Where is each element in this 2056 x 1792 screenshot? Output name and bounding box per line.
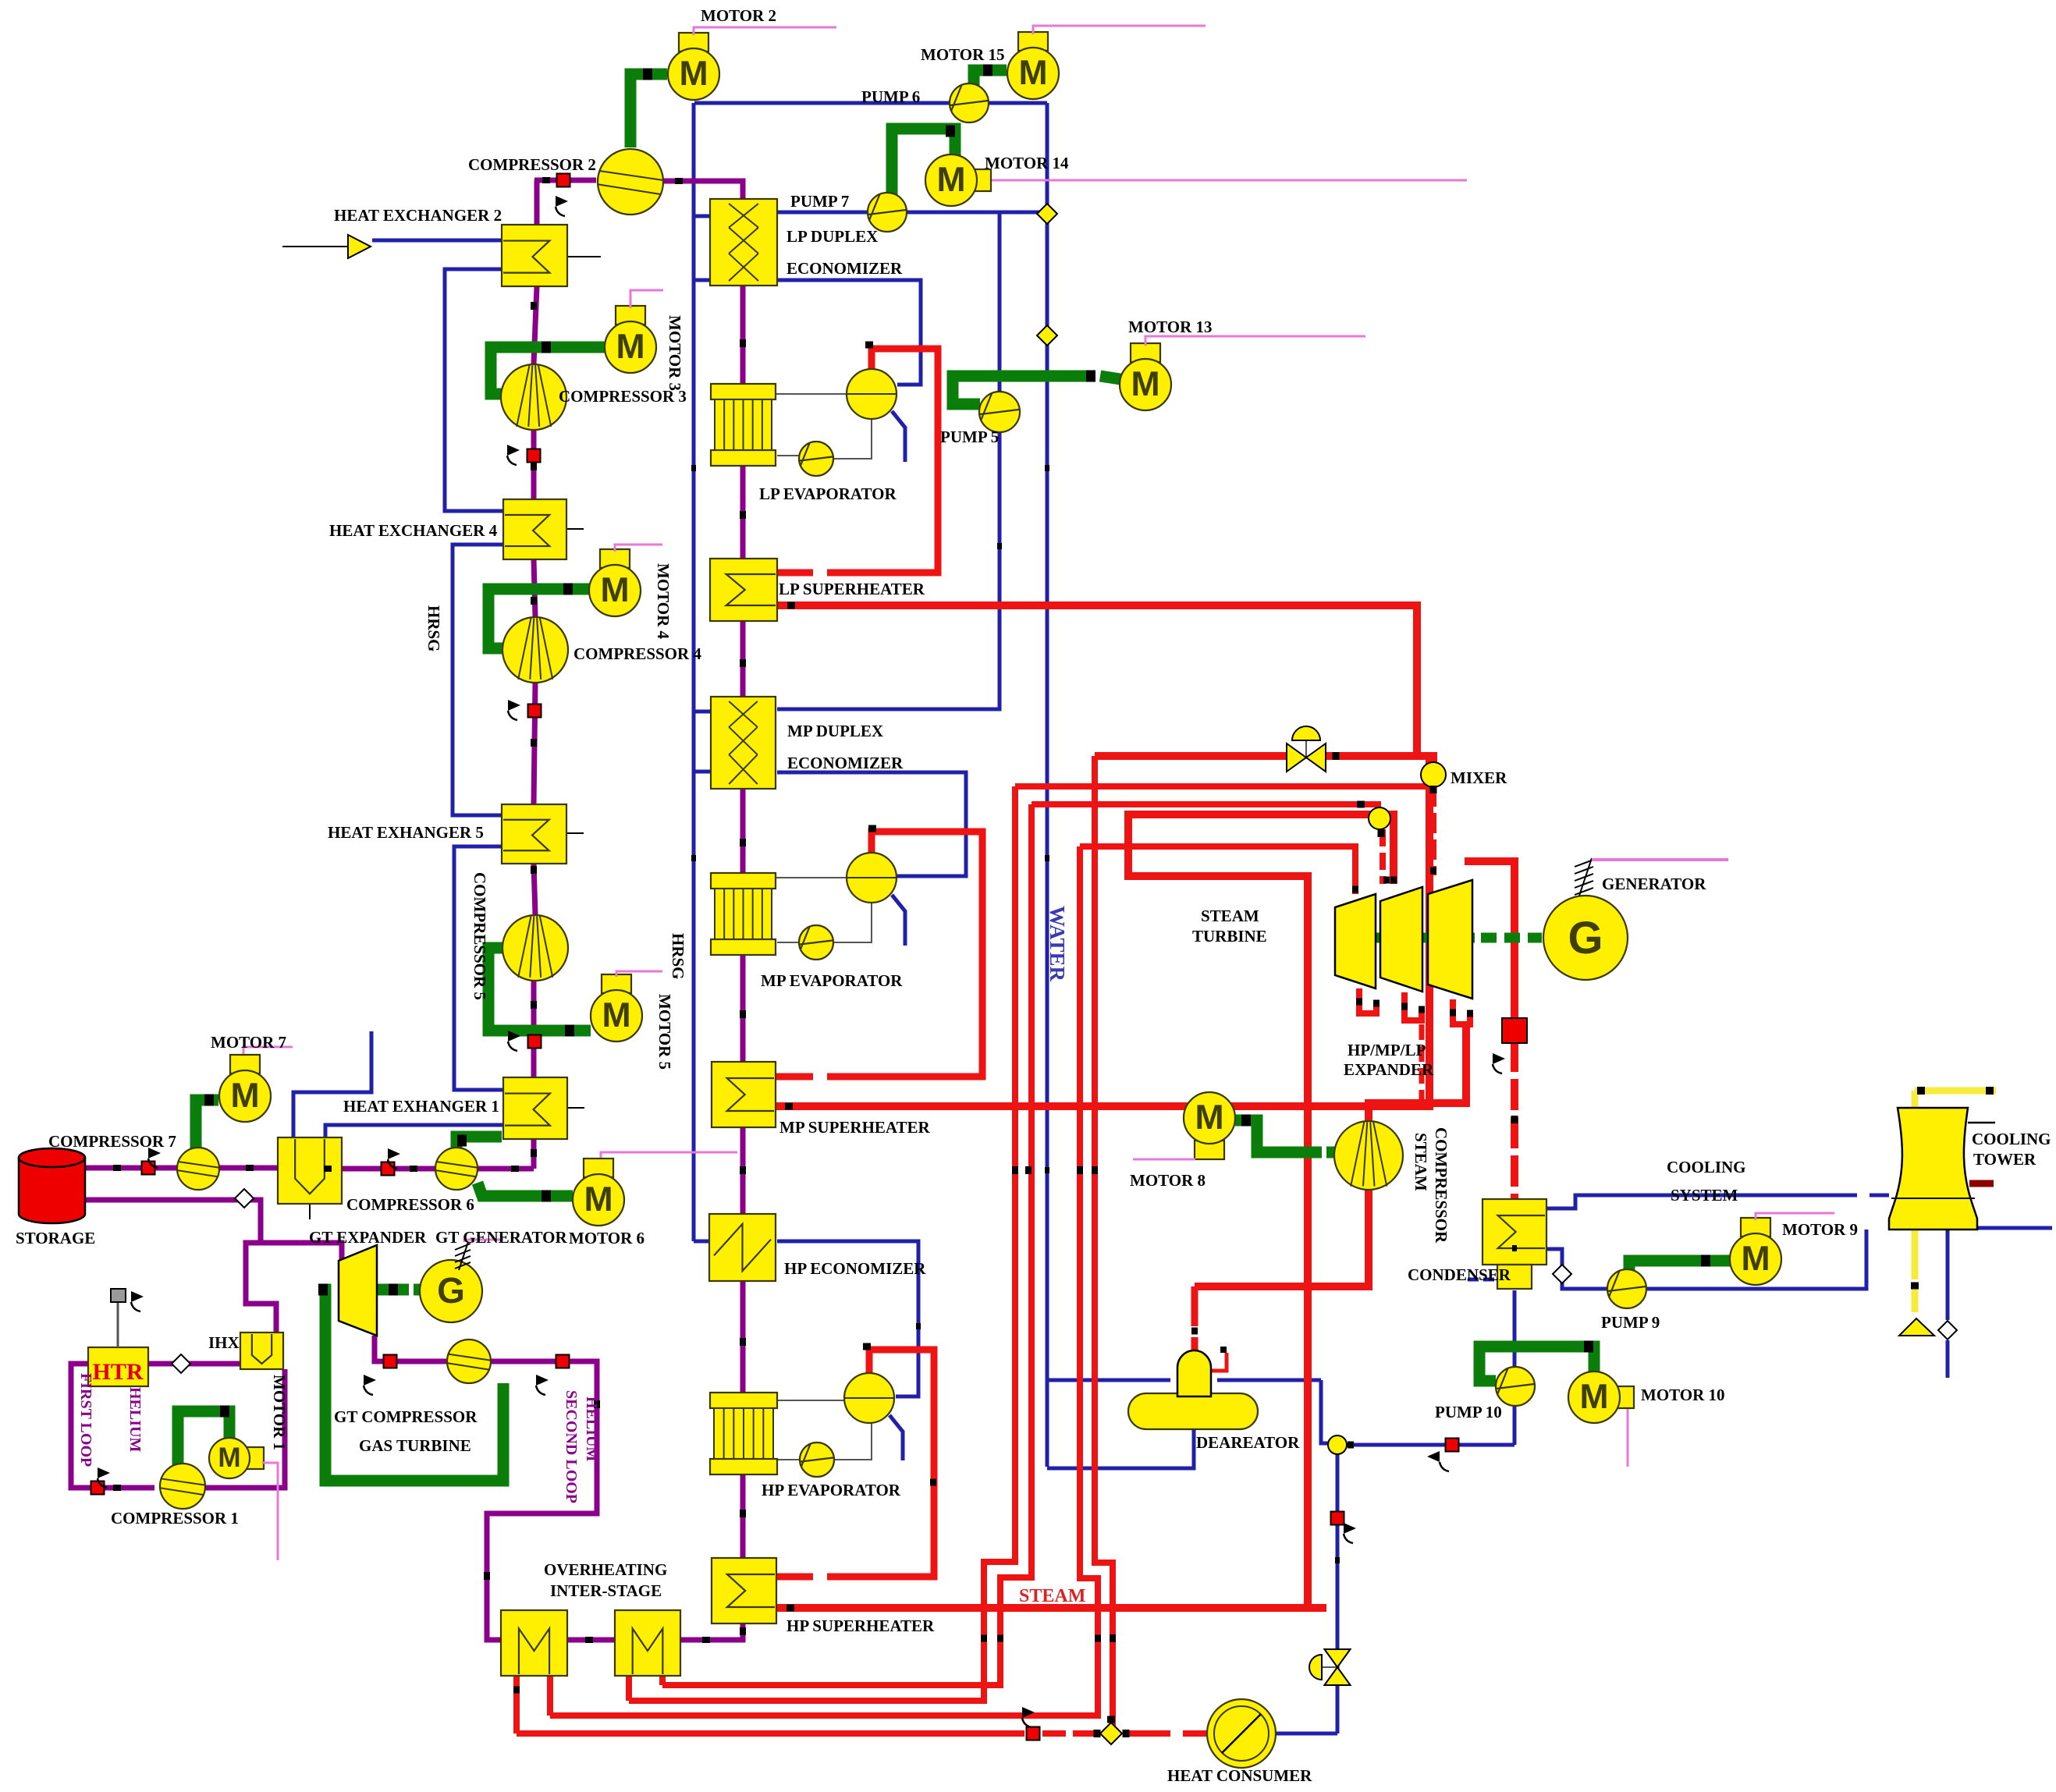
signal wire M9	[1756, 1213, 1834, 1220]
wire steam label crossing tie	[1308, 1604, 1326, 1612]
wire water main vertical	[1046, 103, 1049, 1467]
mixer main	[1421, 762, 1446, 787]
svg-text:GENERATOR: GENERATOR	[1602, 875, 1706, 893]
shaft turbine-generator	[1339, 933, 1475, 943]
wire cooling tower drain yellow	[1912, 1230, 1919, 1279]
svg-text:MOTOR 10: MOTOR 10	[1641, 1386, 1725, 1404]
shaft motor2-compressor2	[630, 74, 667, 147]
wire hp steam to mp turbine inlet	[1128, 814, 1394, 884]
evaporator MP block	[711, 873, 776, 955]
wire mp economizer left stub lower	[694, 770, 712, 774]
generator main	[1543, 896, 1628, 980]
svg-text:GT EXPANDER: GT EXPANDER	[309, 1228, 427, 1247]
node diamond storage line	[235, 1189, 254, 1208]
condenser hotwell	[1497, 1265, 1532, 1289]
svg-text:M: M	[602, 996, 630, 1034]
svg-text:LP SUPERHEATER: LP SUPERHEATER	[779, 580, 925, 598]
pump P7	[868, 193, 907, 232]
motor M1	[209, 1438, 264, 1478]
wire he2 to he4 chain	[445, 269, 503, 511]
wire interstage steam riser D	[662, 804, 1032, 1685]
generator GT	[420, 1260, 482, 1322]
svg-text:MIXER: MIXER	[1451, 768, 1507, 787]
economizer LP duplex	[710, 199, 777, 286]
wire hrsg string mp econ to mp evap	[740, 789, 746, 873]
drain flag htr relief	[131, 1291, 144, 1311]
svg-text:HELIUM: HELIUM	[583, 1396, 600, 1461]
wire hrsg string hp evap to hp superheater	[740, 1467, 746, 1558]
wire node to pump10 line	[1347, 1443, 1514, 1447]
turbine HP section	[1335, 894, 1376, 988]
wire turbine exhaust to condenser	[1465, 861, 1514, 1022]
svg-text:COMPRESSOR 4: COMPRESSOR 4	[573, 644, 701, 663]
cooling tower basin line	[1891, 1198, 1975, 1199]
valve compressor3 discharge	[527, 449, 541, 463]
mixer secondary	[1369, 807, 1390, 829]
svg-text:PUMP 10: PUMP 10	[1435, 1403, 1502, 1421]
wire mixer to lp turbine inlet	[1430, 786, 1436, 875]
valve pump10 suction	[1446, 1439, 1459, 1452]
wire mixer2 to mp turbine inlet	[1380, 829, 1386, 884]
svg-text:STEAM: STEAM	[1201, 907, 1259, 925]
node diamond water upper	[1037, 204, 1057, 224]
wire interstage to second loop riser	[487, 1361, 597, 1640]
motor M13	[1120, 343, 1171, 410]
wire mp evaporator downcomer gray	[777, 942, 799, 943]
wire interstage steam riser B	[550, 846, 1098, 1716]
wire hrsg string lp evap to lp superheater	[740, 466, 746, 559]
wire hp drum to hp superheater inlet	[827, 1350, 934, 1577]
wire lp evaporator downcomer gray	[777, 455, 799, 456]
shaft compressor6-he1 link	[456, 1137, 502, 1150]
wire lp section extraction hook	[1453, 999, 1470, 1024]
svg-text:COMPRESSOR 6: COMPRESSOR 6	[346, 1195, 474, 1214]
evaporator LP block	[711, 384, 776, 466]
wire interstage steam header A	[1015, 783, 1431, 790]
svg-text:HELIUM: HELIUM	[126, 1387, 144, 1452]
signal wire M2	[694, 27, 836, 35]
wire mp drum level stub	[892, 895, 905, 946]
shaft motor1-compressor1	[178, 1411, 229, 1465]
heat exchanger HE1	[503, 1077, 567, 1139]
wire control valve to mixer	[1324, 756, 1433, 763]
svg-text:PUMP 5: PUMP 5	[940, 428, 999, 446]
economizer HP	[709, 1214, 776, 1281]
drain flag c7	[148, 1148, 161, 1168]
svg-text:HP EVAPORATOR: HP EVAPORATOR	[762, 1481, 901, 1499]
compressor C4	[502, 617, 568, 683]
svg-text:FIRST LOOP: FIRST LOOP	[77, 1373, 94, 1467]
svg-text:HRSG: HRSG	[424, 605, 443, 652]
wire compressor3 to he2 string	[534, 286, 537, 364]
signal wire M15	[1033, 26, 1206, 34]
wire he2 right stub	[567, 256, 601, 257]
generator excitation	[1575, 858, 1593, 896]
wire deaerator vent stub	[1211, 1353, 1227, 1371]
pump P10	[1496, 1367, 1535, 1406]
node diamond tower	[1938, 1321, 1957, 1340]
wire hx3 to he1 lower	[325, 1125, 503, 1137]
drain flag c4	[508, 700, 520, 720]
svg-text:MOTOR 4: MOTOR 4	[654, 563, 673, 640]
wire lp economizer left stub upper	[694, 215, 711, 218]
superheater MP	[712, 1062, 776, 1127]
wire compressor2 suction	[534, 178, 596, 183]
wire hx3 vent stub	[293, 1031, 371, 1137]
svg-text:COMPRESSOR 5: COMPRESSOR 5	[471, 872, 489, 1000]
svg-text:CONDENSER: CONDENSER	[1408, 1265, 1511, 1284]
motor M3	[605, 306, 656, 373]
svg-text:HEAT CONSUMER: HEAT CONSUMER	[1167, 1766, 1312, 1785]
svg-text:HP SUPERHEATER: HP SUPERHEATER	[787, 1616, 935, 1635]
node diamond condensate	[1553, 1265, 1571, 1283]
svg-text:LP DUPLEX: LP DUPLEX	[787, 227, 878, 246]
valve deaerator drain	[1331, 1512, 1344, 1525]
wire he4 to he5 chain	[453, 545, 503, 815]
svg-text:COMPRESSOR 2: COMPRESSOR 2	[468, 155, 596, 174]
wire he1 right stub	[567, 1107, 584, 1109]
wire lp economizer left stub lower	[694, 279, 711, 282]
shaft motor4-compressor4	[488, 589, 589, 648]
svg-text:HEAT EXCHANGER 4: HEAT EXCHANGER 4	[329, 521, 498, 540]
svg-text:COMPRESSOR 7: COMPRESSOR 7	[48, 1132, 176, 1151]
evaporator HP block	[710, 1393, 777, 1474]
wire mp section extraction hook	[1404, 992, 1422, 1020]
pump P9	[1607, 1269, 1646, 1308]
compressor C2	[598, 149, 663, 215]
wire mp economizer left stub upper	[694, 710, 712, 714]
svg-text:TURBINE: TURBINE	[1192, 927, 1267, 946]
wire interstage steam header C	[1080, 846, 1355, 894]
svg-text:MOTOR 2: MOTOR 2	[701, 6, 776, 25]
motor M8	[1184, 1092, 1235, 1159]
drain flag c1	[98, 1467, 110, 1488]
cooling tower	[1889, 1108, 1977, 1230]
pump HP recirc	[800, 1442, 834, 1477]
motor M14	[925, 154, 991, 206]
wire ihx to gt expander	[246, 1243, 342, 1332]
svg-text:M: M	[1579, 1378, 1608, 1416]
superheater LP	[710, 559, 777, 621]
motor M6	[573, 1159, 624, 1226]
signal wire M7	[243, 1047, 293, 1054]
signal wire M10	[1627, 1409, 1629, 1467]
signal wire M1	[262, 1463, 278, 1560]
overheating inter-stage HX B	[615, 1610, 680, 1676]
wire he5 to he1 chain	[454, 846, 503, 1090]
svg-text:GT COMPRESSOR: GT COMPRESSOR	[334, 1407, 478, 1426]
wire cooling tower heat out dark red	[1969, 1180, 1994, 1187]
svg-text:MOTOR 1: MOTOR 1	[270, 1375, 289, 1450]
svg-text:MOTOR 7: MOTOR 7	[211, 1033, 286, 1052]
turbine MP section	[1380, 887, 1422, 992]
wire mp economizer upper right riser	[777, 212, 1000, 709]
svg-text:LP EVAPORATOR: LP EVAPORATOR	[759, 484, 897, 503]
svg-text:INTER-STAGE: INTER-STAGE	[550, 1581, 662, 1600]
wire lp superheater outlet steam	[777, 605, 1417, 756]
shaft pump5-motor13	[953, 376, 1095, 404]
node diamond htr line	[172, 1354, 190, 1373]
wire hrsg string mp evap to mp superheater	[740, 955, 746, 1062]
svg-text:ECONOMIZER: ECONOMIZER	[787, 754, 904, 772]
wire condenser to cooling tower supply	[1546, 1195, 1857, 1208]
valve compressor2 suction	[557, 174, 570, 187]
shaft gt expander to gt compressor loop	[318, 1290, 503, 1481]
svg-text:COMPRESSOR: COMPRESSOR	[1432, 1127, 1451, 1244]
svg-text:MOTOR 9: MOTOR 9	[1782, 1220, 1858, 1239]
svg-text:M: M	[218, 1442, 240, 1473]
drum LP	[847, 369, 897, 419]
svg-text:M: M	[1018, 54, 1047, 92]
motor M15	[1007, 32, 1059, 99]
wire interstage steam header B to mixer2	[1032, 801, 1358, 807]
heat exchanger IHX	[240, 1332, 283, 1369]
wire heat consumer valve riser	[1095, 756, 1113, 1733]
shaft motor6-compressor6	[478, 1183, 573, 1196]
wire condenser drain stub	[1468, 1278, 1497, 1282]
wire hrsg string hp eco to hp evaporator	[740, 1281, 746, 1393]
wire mp drum to mp superheater inlet	[827, 832, 982, 1077]
wire compressor7 to hx3	[219, 1166, 278, 1171]
wire he4 right stub	[566, 528, 584, 530]
shaft motor3-compressor3	[491, 347, 605, 394]
shaft steam compressor dash	[1326, 1147, 1336, 1159]
svg-text:OVERHEATING: OVERHEATING	[544, 1560, 667, 1579]
wire helium first loop compressor1 to ihx	[205, 1369, 285, 1488]
htr relief valve box	[111, 1289, 126, 1302]
wire he4 to compressor3 string	[531, 430, 537, 499]
signal wire M13	[1145, 336, 1365, 346]
wire hrsg gas string lp econ to lp evap	[740, 286, 746, 384]
wire hp evaporator downcomer gray	[777, 1459, 800, 1460]
svg-text:G: G	[1568, 913, 1603, 963]
wire interstage2 left outlet	[626, 1676, 632, 1701]
wire interstage steam riser C	[629, 786, 1015, 1701]
svg-text:M: M	[584, 1180, 613, 1219]
shaft pump9-motor9	[1629, 1261, 1731, 1272]
wire cooling tower blowdown	[1946, 1230, 1950, 1320]
wire interstage2 right outlet	[659, 1676, 666, 1685]
svg-text:PUMP 9: PUMP 9	[1601, 1313, 1660, 1332]
overheating inter-stage HX A	[501, 1610, 567, 1676]
svg-text:GT GENERATOR: GT GENERATOR	[435, 1228, 567, 1247]
drain flag p10	[1427, 1451, 1449, 1471]
drain flag gtc	[364, 1375, 376, 1395]
compressor steam compressor	[1334, 1121, 1403, 1190]
wire hrsg feed header vertical	[692, 103, 696, 1241]
motor M7	[219, 1055, 271, 1122]
svg-text:PUMP 7: PUMP 7	[790, 192, 849, 211]
svg-text:TOWER: TOWER	[1973, 1150, 2036, 1169]
svg-text:STEAM: STEAM	[1019, 1586, 1085, 1606]
svg-text:MOTOR 3: MOTOR 3	[666, 315, 684, 391]
svg-text:HEAT EXHANGER 1: HEAT EXHANGER 1	[343, 1097, 499, 1116]
wire compressor5 to he5 string	[534, 864, 535, 915]
wire lp drum to lp superheater inlet	[827, 349, 938, 573]
wire interstage connection middle	[567, 1638, 615, 1643]
signal wire M6	[601, 1152, 737, 1158]
svg-text:IHX: IHX	[208, 1333, 240, 1352]
compressor C3	[501, 364, 566, 430]
wire condenser to pump9	[1546, 1249, 1607, 1289]
svg-text:COOLING: COOLING	[1667, 1158, 1746, 1176]
pipe tick marks	[113, 177, 1518, 1694]
wire extraction to steam compressor	[1369, 1024, 1466, 1122]
drain flag texh	[1493, 1053, 1505, 1073]
wire cooling tower air out	[1912, 1091, 1919, 1108]
cooling tower drain triangle	[1899, 1318, 1934, 1336]
wire he2 feed stub upper	[372, 239, 502, 243]
shaft gt expander to generator	[377, 1284, 409, 1296]
valve compressor4 discharge	[528, 704, 542, 718]
wire compressor4 to he4 string	[534, 559, 535, 617]
drain flag hc	[1022, 1707, 1035, 1727]
wire hp economizer right to hp drum	[777, 1241, 918, 1396]
wire hp drum level stub	[890, 1415, 903, 1460]
wire mp evaporator riser gray	[776, 877, 847, 878]
svg-text:SECOND LOOP: SECOND LOOP	[563, 1390, 580, 1503]
svg-text:COOLING: COOLING	[1972, 1130, 2051, 1148]
svg-text:M: M	[1195, 1098, 1223, 1137]
svg-text:MOTOR 15: MOTOR 15	[921, 45, 1005, 64]
svg-text:MP EVAPORATOR: MP EVAPORATOR	[761, 971, 903, 990]
wire hx3 to compressor6	[342, 1166, 435, 1172]
drain flag c5	[508, 1031, 520, 1051]
svg-text:HEAT EXHANGER 5: HEAT EXHANGER 5	[328, 823, 484, 842]
wire steam compressor to deaerator	[1195, 1189, 1369, 1286]
shaft motor8-steam compressor	[1235, 1120, 1322, 1152]
wire hp superheater outlet riser	[777, 876, 1308, 1608]
svg-text:COMPRESSOR 1: COMPRESSOR 1	[111, 1509, 239, 1528]
drain flag c6	[388, 1148, 400, 1169]
shaft pump7-motor14	[892, 129, 955, 195]
svg-text:MOTOR 8: MOTOR 8	[1130, 1171, 1206, 1190]
valve heat consumer supply	[1027, 1727, 1040, 1741]
drain flag dea	[1344, 1523, 1356, 1543]
wire hx3 bottom stub	[309, 1204, 311, 1219]
wire mp economizer lower right to mp drum	[777, 772, 966, 876]
svg-text:MOTOR 5: MOTOR 5	[655, 994, 674, 1070]
pump MP recirc	[799, 925, 833, 960]
wire hrsg string lp sh to mp economizer	[740, 621, 746, 697]
wire interstage1 right outlet	[547, 1676, 553, 1716]
wire he5 to compressor4 string	[534, 683, 535, 804]
wire cooling tower right outfall	[1977, 1226, 2052, 1230]
wire lp evaporator riser gray	[776, 393, 847, 395]
pump P6	[950, 83, 989, 122]
valve turbine exhaust	[1502, 1018, 1527, 1043]
signal wire M4	[615, 545, 662, 552]
svg-text:MP DUPLEX: MP DUPLEX	[787, 722, 883, 740]
svg-text:HTR: HTR	[92, 1359, 143, 1385]
shaft motor7-compressor7	[196, 1100, 218, 1150]
valve compressor7 suction	[142, 1162, 155, 1175]
gt generator pink stub	[464, 1240, 503, 1242]
flare symbol	[348, 235, 371, 258]
svg-text:HP ECONOMIZER: HP ECONOMIZER	[784, 1259, 926, 1278]
compressor C1	[160, 1464, 205, 1509]
turbine GT expander	[339, 1245, 377, 1336]
svg-text:SYSTEM: SYSTEM	[1671, 1186, 1738, 1205]
wire diamond to heat consumer	[1124, 1730, 1170, 1737]
wire node down to heat consumer valve	[1336, 1454, 1340, 1733]
shaft pump10-motor10	[1479, 1347, 1594, 1381]
wire hrsg string mp sh to hp economizer	[740, 1127, 746, 1214]
wire mp extraction to steam compressor dashed	[1419, 1024, 1425, 1100]
wire he5 right stub	[566, 832, 584, 834]
node diamond water lower	[1037, 325, 1057, 346]
svg-text:WATER: WATER	[1046, 906, 1069, 982]
reactor HTR	[88, 1347, 148, 1386]
wire lp economizer to pump7	[777, 211, 867, 215]
drain flag c3	[507, 445, 520, 465]
wire lp drum level stub	[892, 411, 905, 462]
wire hp section extraction hook	[1359, 988, 1376, 1013]
motor M4	[589, 549, 641, 616]
valve compressor1 suction	[91, 1482, 105, 1495]
svg-text:STORAGE: STORAGE	[16, 1229, 95, 1247]
shaft motor13 link	[1100, 376, 1120, 379]
turbine LP section	[1428, 880, 1472, 999]
svg-text:MP SUPERHEATER: MP SUPERHEATER	[779, 1118, 931, 1137]
gt generator excitation	[455, 1242, 471, 1270]
valve compressor5 discharge	[528, 1035, 542, 1049]
pump LP recirc	[799, 442, 833, 476]
wire hp economizer left stub	[694, 1240, 710, 1244]
pump P5	[979, 392, 1020, 432]
drain flag c2	[556, 196, 568, 216]
compressor C6	[435, 1148, 478, 1190]
svg-text:HRSG: HRSG	[669, 933, 687, 980]
wire storage lower connection	[85, 1200, 261, 1243]
heat exchanger HE4	[503, 499, 566, 559]
svg-text:DEAREATOR: DEAREATOR	[1196, 1433, 1300, 1452]
heat consumer	[1207, 1699, 1276, 1768]
motor M5	[591, 974, 642, 1041]
compressor GT compressor	[447, 1340, 491, 1383]
compressor C5	[502, 915, 568, 981]
condenser	[1483, 1199, 1546, 1265]
wire water pump6 suction	[694, 101, 949, 105]
shaft pump6-motor15	[974, 70, 1007, 89]
valve gt compressor suction	[384, 1355, 397, 1368]
signal wire M8	[1133, 1159, 1195, 1161]
wire lp economizer lower right to lp drum	[777, 280, 921, 385]
svg-text:M: M	[679, 55, 708, 93]
compressor C7	[177, 1148, 219, 1190]
heat exchanger HE2	[502, 225, 567, 286]
wire hrsg string hp sh to interstage	[680, 1623, 743, 1640]
generator pink stub	[1592, 858, 1728, 861]
signal wire M5	[616, 971, 662, 977]
wire water to deaerator top	[1047, 1379, 1170, 1382]
svg-text:MOTOR 14: MOTOR 14	[985, 154, 1069, 172]
wire interstage1 left outlet	[513, 1676, 520, 1733]
svg-text:M: M	[1741, 1240, 1770, 1278]
wire helium first loop top	[148, 1361, 240, 1367]
valve gt compressor discharge	[556, 1355, 570, 1368]
drum MP	[847, 853, 897, 903]
wire storage to compressor7	[85, 1166, 177, 1171]
svg-text:ECONOMIZER: ECONOMIZER	[787, 259, 903, 278]
svg-text:STEAM: STEAM	[1412, 1133, 1430, 1191]
signal wire M14	[992, 179, 1467, 182]
svg-text:PUMP 6: PUMP 6	[861, 87, 920, 106]
superheater HP	[712, 1558, 776, 1623]
valve compressor6 suction	[382, 1162, 395, 1176]
wire heat consumer steam line	[517, 1730, 1024, 1737]
wire cooling tower top right stub	[1968, 1122, 1995, 1124]
